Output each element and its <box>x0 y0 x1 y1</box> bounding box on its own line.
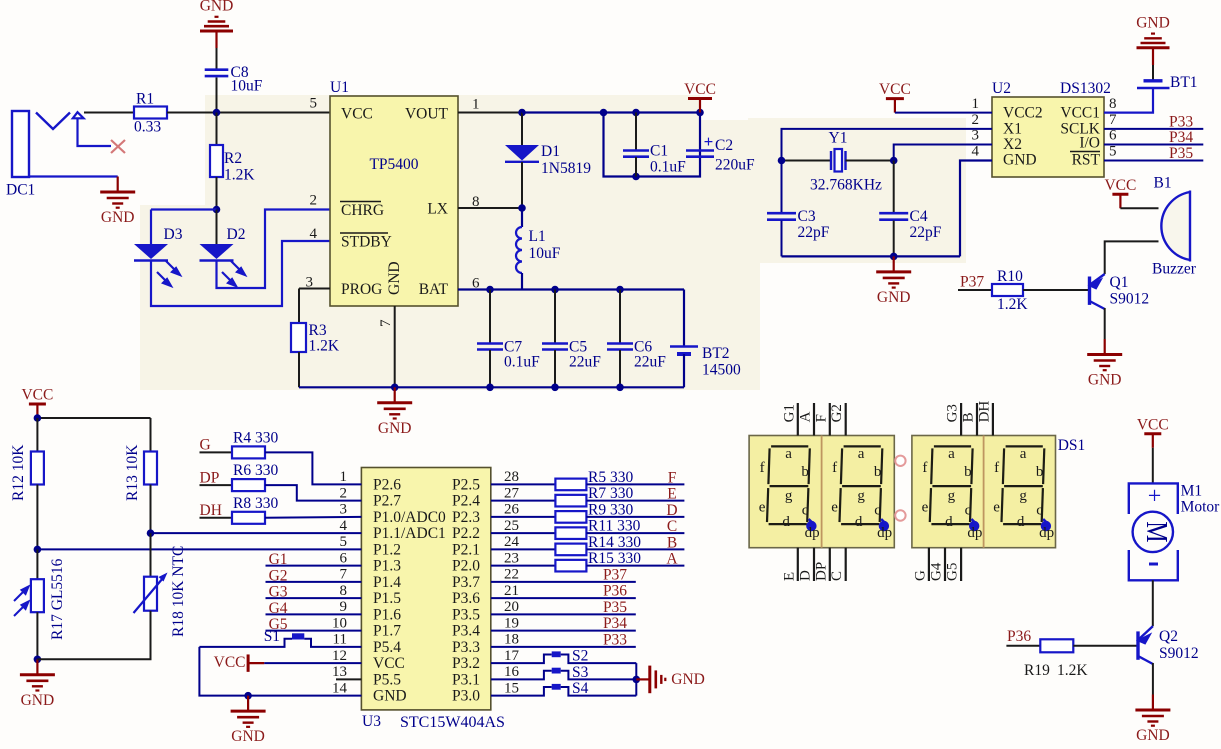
svg-text:g: g <box>948 488 956 504</box>
diode D1 1N5819 <box>521 113 523 146</box>
svg-text:R1: R1 <box>136 91 154 108</box>
pin13 stub <box>336 678 361 680</box>
svg-text:VCC: VCC <box>373 655 405 672</box>
switch S2 <box>491 655 552 664</box>
svg-text:P1.6: P1.6 <box>373 606 401 623</box>
svg-text:DP: DP <box>200 469 220 486</box>
svg-text:VCC: VCC <box>21 387 53 404</box>
svg-text:P1.2: P1.2 <box>373 541 401 558</box>
capacitor C5 <box>554 290 556 344</box>
svg-text:PROG: PROG <box>341 281 382 298</box>
svg-text:22pF: 22pF <box>798 224 830 241</box>
wire R3 to ground rail <box>298 352 300 387</box>
capacitor C4 <box>893 161 895 213</box>
wire VCC to U2 pin1 <box>895 112 992 114</box>
svg-text:20: 20 <box>504 599 519 615</box>
capacitor C6 <box>619 290 621 344</box>
capacitor C3 <box>781 161 783 213</box>
motor M1 body <box>1129 483 1178 580</box>
svg-text:b: b <box>964 464 972 480</box>
wire LX pin 8 <box>458 207 522 209</box>
svg-text:E: E <box>781 572 797 581</box>
wire Q2 collector to GND <box>1152 663 1154 695</box>
svg-text:I/O: I/O <box>1079 135 1100 152</box>
wire node to MCU pin4 <box>151 532 362 534</box>
wire P36 to R19 <box>1006 645 1040 647</box>
svg-text:DH: DH <box>200 502 222 519</box>
svg-text:C2: C2 <box>715 137 733 154</box>
svg-text:Q1: Q1 <box>1110 274 1129 291</box>
svg-text:c: c <box>874 503 881 519</box>
resistor R5 330 row (pin 28) <box>491 483 555 485</box>
svg-text:f: f <box>922 460 927 476</box>
svg-text:GND: GND <box>378 420 412 437</box>
wire Q1 collector to GND <box>1104 308 1106 339</box>
svg-text:X1: X1 <box>1003 121 1022 138</box>
wire pin 22 to net P37 <box>491 581 636 583</box>
wire C8 to node VIN <box>216 78 218 113</box>
svg-text:GND: GND <box>671 671 705 688</box>
svg-text:15: 15 <box>504 680 519 696</box>
svg-text:7: 7 <box>1109 112 1117 128</box>
svg-text:R14 330: R14 330 <box>588 534 641 551</box>
resistor R14 330 row (pin 24) <box>491 548 555 550</box>
svg-text:B: B <box>961 412 977 422</box>
svg-text:d: d <box>1017 514 1025 530</box>
svg-text:G: G <box>200 437 211 454</box>
wire X1 pin2 to crystal <box>782 129 993 161</box>
svg-text:P33: P33 <box>603 631 627 648</box>
wire S1 loop to GND rail pin14 <box>199 647 361 696</box>
svg-text:P1.5: P1.5 <box>373 590 401 607</box>
svg-text:21: 21 <box>504 583 519 599</box>
svg-text:12: 12 <box>332 648 347 664</box>
svg-text:GND: GND <box>1136 727 1170 744</box>
svg-text:P5.4: P5.4 <box>373 639 401 656</box>
svg-text:S9012: S9012 <box>1110 291 1150 308</box>
wire LED anode to D2 <box>216 210 218 245</box>
wire pin 21 to net P36 <box>491 597 636 599</box>
svg-text:C4: C4 <box>910 208 928 225</box>
svg-text:5: 5 <box>1109 144 1117 160</box>
svg-text:D: D <box>666 502 677 519</box>
svg-text:e: e <box>759 500 766 516</box>
svg-text:5: 5 <box>310 96 318 112</box>
svg-text:220uF: 220uF <box>715 157 755 174</box>
op-amp U2 DS1302 body <box>992 97 1104 177</box>
wire D1 to LX node <box>521 162 523 208</box>
power VCC (sensor divider) <box>36 404 38 418</box>
wire DC1 middle pin (no connect) <box>78 118 112 146</box>
svg-text:S1: S1 <box>264 628 280 645</box>
wire GND to BT1 <box>1152 48 1154 65</box>
svg-text:P2.5: P2.5 <box>452 476 480 493</box>
svg-text:CHRG: CHRG <box>341 202 384 219</box>
svg-text:P2.6: P2.6 <box>373 476 401 493</box>
svg-text:b: b <box>801 464 809 480</box>
svg-text:P34: P34 <box>1169 129 1193 146</box>
capacitor C7 <box>489 290 491 344</box>
node VOUT junction at D1 <box>518 109 526 117</box>
node crystal left <box>778 157 786 165</box>
svg-text:P33: P33 <box>1169 114 1193 131</box>
svg-text:22uF: 22uF <box>569 354 601 371</box>
svg-text:M1: M1 <box>1181 482 1203 499</box>
colon dots <box>895 456 905 466</box>
svg-text:24: 24 <box>504 534 520 550</box>
wire node to MCU pin5 <box>37 548 361 550</box>
svg-text:e: e <box>922 500 929 516</box>
svg-text:1.2K: 1.2K <box>997 296 1028 313</box>
svg-text:P2.1: P2.1 <box>452 541 480 558</box>
svg-text:B1: B1 <box>1154 175 1172 192</box>
svg-text:VCC: VCC <box>214 654 246 671</box>
svg-text:18: 18 <box>504 632 519 648</box>
svg-text:g: g <box>1019 488 1027 504</box>
svg-text:G4: G4 <box>929 562 945 581</box>
svg-text:C3: C3 <box>798 208 816 225</box>
svg-text:0.33: 0.33 <box>134 119 161 136</box>
svg-text:R2: R2 <box>224 150 242 167</box>
ground GND (Q2) <box>1152 695 1154 711</box>
svg-text:LX: LX <box>427 201 448 218</box>
svg-text:GND: GND <box>877 289 911 306</box>
svg-text:M: M <box>1140 521 1175 542</box>
capacitor C2 (polarized) <box>686 149 714 152</box>
svg-text:U1: U1 <box>330 79 349 96</box>
svg-text:1N5819: 1N5819 <box>541 160 591 177</box>
svg-text:D3: D3 <box>164 226 183 243</box>
svg-text:S3: S3 <box>572 664 589 681</box>
svg-text:Y1: Y1 <box>829 130 848 147</box>
svg-text:8: 8 <box>340 583 348 599</box>
svg-text:e: e <box>831 500 838 516</box>
svg-text:dp: dp <box>877 525 892 541</box>
svg-text:R11 330: R11 330 <box>588 518 641 535</box>
wire R8 to pin3 <box>265 516 361 519</box>
no-connect X mark <box>111 140 125 153</box>
svg-text:a: a <box>785 446 792 462</box>
svg-text:STC15W404AS: STC15W404AS <box>400 714 505 731</box>
svg-text:D: D <box>798 570 814 581</box>
svg-text:26: 26 <box>504 502 520 518</box>
resistor R3 <box>299 288 330 290</box>
svg-text:F: F <box>668 469 677 486</box>
svg-text:A: A <box>798 411 814 422</box>
switch S4 <box>491 687 552 696</box>
display bottom pins group2 G G4 G5 <box>928 548 930 581</box>
resistor R1 <box>134 107 167 119</box>
svg-text:E: E <box>667 486 676 503</box>
svg-text:STDBY: STDBY <box>341 234 392 251</box>
svg-text:P3.1: P3.1 <box>452 671 480 688</box>
power VCC (motor) <box>1152 434 1154 448</box>
svg-text:P2.7: P2.7 <box>373 493 401 510</box>
svg-text:9: 9 <box>340 599 348 615</box>
wire switches to ground <box>635 663 637 696</box>
wire pin 18 to net P33 <box>491 646 636 648</box>
svg-text:g: g <box>785 488 793 504</box>
svg-text:P34: P34 <box>603 615 627 632</box>
diode D3 (LED) <box>134 244 168 259</box>
wire R2 to LED node <box>216 177 218 210</box>
svg-text:R3: R3 <box>309 322 327 339</box>
svg-text:S2: S2 <box>572 648 588 665</box>
wire VOUT pin1 to D1 <box>458 112 522 114</box>
power VCC (U2) <box>894 99 896 113</box>
display DS1 group 1 body <box>749 436 894 548</box>
svg-text:6: 6 <box>340 550 348 566</box>
svg-text:P2.2: P2.2 <box>452 525 480 542</box>
svg-text:a: a <box>948 446 955 462</box>
battery BT2 14500 <box>683 290 685 347</box>
svg-text:P1.3: P1.3 <box>373 558 401 575</box>
svg-text:19: 19 <box>504 615 519 631</box>
wire C1 C2 bottom loop <box>604 113 701 177</box>
resistor R11 330 row (pin 25) <box>491 532 555 534</box>
wire VCC to motor <box>1152 448 1154 484</box>
svg-text:4: 4 <box>340 518 348 534</box>
svg-text:22pF: 22pF <box>910 224 942 241</box>
svg-text:VOUT: VOUT <box>405 106 449 123</box>
connector DC1 power jack <box>12 111 29 177</box>
wire R19 to Q2 base <box>1073 645 1138 647</box>
svg-text:U2: U2 <box>992 80 1011 97</box>
svg-text:GND: GND <box>1088 372 1122 389</box>
svg-text:1.2K: 1.2K <box>1057 662 1088 679</box>
svg-text:BT2: BT2 <box>702 345 730 362</box>
svg-text:F: F <box>813 414 829 422</box>
svg-text:1.2K: 1.2K <box>224 167 255 184</box>
svg-text:22: 22 <box>504 567 519 583</box>
wire U2 GND pin4 <box>960 161 992 257</box>
transistor Q1 S9012 <box>1088 277 1091 305</box>
display top pins group1 G1 A F G2 <box>797 403 799 436</box>
svg-text:11: 11 <box>333 632 347 648</box>
display DS1 group 2 body <box>912 436 1056 548</box>
svg-text:P3.3: P3.3 <box>452 639 480 656</box>
display bottom pins group1 E D DP C <box>797 548 799 581</box>
wire R13 to node ADC0 <box>150 485 152 534</box>
svg-text:R17 GL5516: R17 GL5516 <box>49 558 66 640</box>
wire R4 to pin1 <box>265 452 361 484</box>
svg-text:16: 16 <box>504 664 520 680</box>
svg-text:27: 27 <box>504 485 520 501</box>
resistor R19 <box>1040 639 1073 652</box>
svg-text:VCC: VCC <box>341 106 373 123</box>
svg-text:R6 330: R6 330 <box>233 462 278 479</box>
svg-text:VCC: VCC <box>684 81 716 98</box>
wire pin 20 to net P35 <box>491 613 636 615</box>
battery BT1 <box>1144 79 1163 82</box>
svg-text:C: C <box>667 518 677 535</box>
svg-text:a: a <box>858 446 865 462</box>
wire D2 cathode to CHRG <box>217 210 331 289</box>
svg-text:+: + <box>1148 484 1162 510</box>
svg-text:X2: X2 <box>1003 136 1022 153</box>
wire BT1 to U2 pin8 <box>1104 88 1153 113</box>
ground GND (crystal) <box>893 256 895 272</box>
svg-text:5: 5 <box>340 534 348 550</box>
resistor R13 10K <box>150 418 152 452</box>
D3 light arrows <box>157 261 180 286</box>
svg-text:P36: P36 <box>1007 628 1031 645</box>
diode D2 (LED) <box>200 244 234 259</box>
wire D3 cathode to STDBY <box>151 241 330 306</box>
svg-text:2: 2 <box>972 112 980 128</box>
svg-text:P37: P37 <box>960 274 984 291</box>
wire DC1 tip to R1 <box>84 112 134 114</box>
svg-text:Motor: Motor <box>1181 499 1221 516</box>
wire VOUT rail to VCC <box>522 111 700 113</box>
resistor R15 330 row (pin 23) <box>491 565 555 567</box>
svg-text:2: 2 <box>340 485 348 501</box>
svg-text:S9012: S9012 <box>1159 645 1199 662</box>
svg-text:BAT: BAT <box>419 281 449 298</box>
svg-text:R13 10K: R13 10K <box>124 444 141 501</box>
wire P37 to R10 <box>958 289 992 291</box>
svg-text:1: 1 <box>472 97 480 113</box>
svg-text:R7 330: R7 330 <box>588 485 633 502</box>
wire VCC to buzzer <box>1120 207 1158 209</box>
svg-text:P35: P35 <box>603 599 627 616</box>
svg-text:RST: RST <box>1072 152 1101 169</box>
svg-text:c: c <box>965 503 972 519</box>
svg-text:13: 13 <box>332 664 347 680</box>
svg-text:0.1uF: 0.1uF <box>650 159 686 176</box>
digit 1 seven-segment <box>767 446 810 524</box>
svg-text:P3.7: P3.7 <box>452 574 480 591</box>
svg-text:D2: D2 <box>227 226 246 243</box>
svg-text:R4 330: R4 330 <box>233 430 278 447</box>
power VCC (buzzer) <box>1119 194 1121 208</box>
wire L1 to BAT rail <box>521 273 523 290</box>
wire DC1 sleeve to GND <box>29 175 118 177</box>
wire R10 to Q1 base <box>1023 289 1090 291</box>
svg-text:DS1302: DS1302 <box>1060 80 1111 97</box>
svg-text:P2.4: P2.4 <box>452 493 480 510</box>
digit 2 seven-segment <box>840 446 883 524</box>
svg-text:1: 1 <box>972 96 980 112</box>
crystal Y1 32.768KHz <box>782 160 832 162</box>
node crystal right <box>890 157 898 165</box>
svg-text:d: d <box>855 514 863 530</box>
capacitor C8 <box>205 68 229 71</box>
wire VCC node to dividers <box>37 417 150 419</box>
svg-text:R15 330: R15 330 <box>588 550 641 567</box>
svg-text:f: f <box>832 460 837 476</box>
svg-text:G5: G5 <box>945 563 961 581</box>
svg-text:1: 1 <box>340 469 348 485</box>
svg-text:G3: G3 <box>945 404 961 422</box>
svg-text:P3.0: P3.0 <box>452 688 480 705</box>
transistor Q2 S9012 <box>1136 631 1139 659</box>
svg-text:3: 3 <box>340 502 348 518</box>
ground GND (sensor divider) <box>36 659 38 675</box>
svg-text:BT1: BT1 <box>1170 74 1198 91</box>
svg-text:c: c <box>1036 503 1043 519</box>
svg-text:R12 10K: R12 10K <box>10 444 27 501</box>
resistor R9 330 row (pin 26) <box>491 516 555 518</box>
display top pins group2 G3 B DH <box>960 403 962 436</box>
resistor R7 330 row (pin 27) <box>491 500 555 502</box>
svg-text:22uF: 22uF <box>634 354 666 371</box>
inductor L1 <box>521 208 523 227</box>
ground GND (switches, rotated) <box>636 678 650 680</box>
svg-text:DS1: DS1 <box>1058 437 1086 454</box>
wire SCLK to P33 <box>1104 128 1203 130</box>
resistor R12 10K <box>36 418 38 452</box>
svg-text:dp: dp <box>1039 525 1054 541</box>
svg-text:f: f <box>760 460 765 476</box>
svg-text:GND: GND <box>386 261 403 295</box>
op-amp U3 STC15W404AS body <box>361 468 490 710</box>
svg-text:GND: GND <box>1136 14 1170 31</box>
svg-text:0.1uF: 0.1uF <box>504 354 540 371</box>
svg-text:e: e <box>993 500 1000 516</box>
capacitor C1 <box>635 113 637 151</box>
wire crystal ground rail <box>782 255 961 257</box>
svg-text:D1: D1 <box>541 143 560 160</box>
svg-text:23: 23 <box>504 550 519 566</box>
svg-text:P2.3: P2.3 <box>452 509 480 526</box>
wire R6 to pin2 <box>265 485 361 501</box>
svg-text:P3.6: P3.6 <box>452 590 480 607</box>
svg-text:28: 28 <box>504 469 519 485</box>
svg-text:G2: G2 <box>829 404 845 422</box>
wire GND to C8 <box>216 48 218 70</box>
svg-text:P3.5: P3.5 <box>452 606 480 623</box>
svg-text:VCC2: VCC2 <box>1003 105 1043 122</box>
svg-text:dp: dp <box>805 525 820 541</box>
svg-text:DC1: DC1 <box>6 182 35 199</box>
svg-text:P1.4: P1.4 <box>373 574 401 591</box>
svg-text:DH: DH <box>976 401 992 423</box>
svg-text:A: A <box>666 551 678 568</box>
svg-text:GND: GND <box>373 688 407 705</box>
svg-text:VCC: VCC <box>1137 416 1169 433</box>
photoresistor R17 GL5516 <box>36 549 38 579</box>
node VIN junction <box>213 109 221 117</box>
svg-text:a: a <box>1020 446 1027 462</box>
svg-text:P1.1/ADC1: P1.1/ADC1 <box>373 525 446 542</box>
svg-text:d: d <box>782 514 790 530</box>
svg-text:S4: S4 <box>572 680 589 697</box>
svg-text:P1.0/ADC0: P1.0/ADC0 <box>373 509 446 526</box>
wire R17 to ground <box>36 612 38 659</box>
switch S3 <box>491 671 552 680</box>
svg-text:G: G <box>912 570 928 581</box>
svg-text:VCC: VCC <box>879 81 911 98</box>
node crystal gnd junction <box>890 253 898 261</box>
svg-text:VCC: VCC <box>1104 177 1136 194</box>
svg-text:+: + <box>704 132 714 151</box>
svg-text:7: 7 <box>340 567 348 583</box>
svg-text:Q2: Q2 <box>1159 628 1178 645</box>
svg-text:7: 7 <box>378 319 394 327</box>
wire buzzer to Q1 emitter <box>1105 241 1159 274</box>
svg-text:R5 330: R5 330 <box>588 469 633 486</box>
svg-text:C1: C1 <box>650 143 668 160</box>
svg-text:17: 17 <box>504 648 520 664</box>
svg-text:R8 330: R8 330 <box>233 495 278 512</box>
svg-text:P35: P35 <box>1169 145 1193 162</box>
svg-text:GND: GND <box>101 209 135 226</box>
wire R1 to U1 VCC pin 5 <box>167 112 330 114</box>
wire RST to P35 <box>1104 160 1203 162</box>
digit 3 seven-segment <box>930 446 973 524</box>
wire R12 to node ADC1 <box>36 485 38 550</box>
